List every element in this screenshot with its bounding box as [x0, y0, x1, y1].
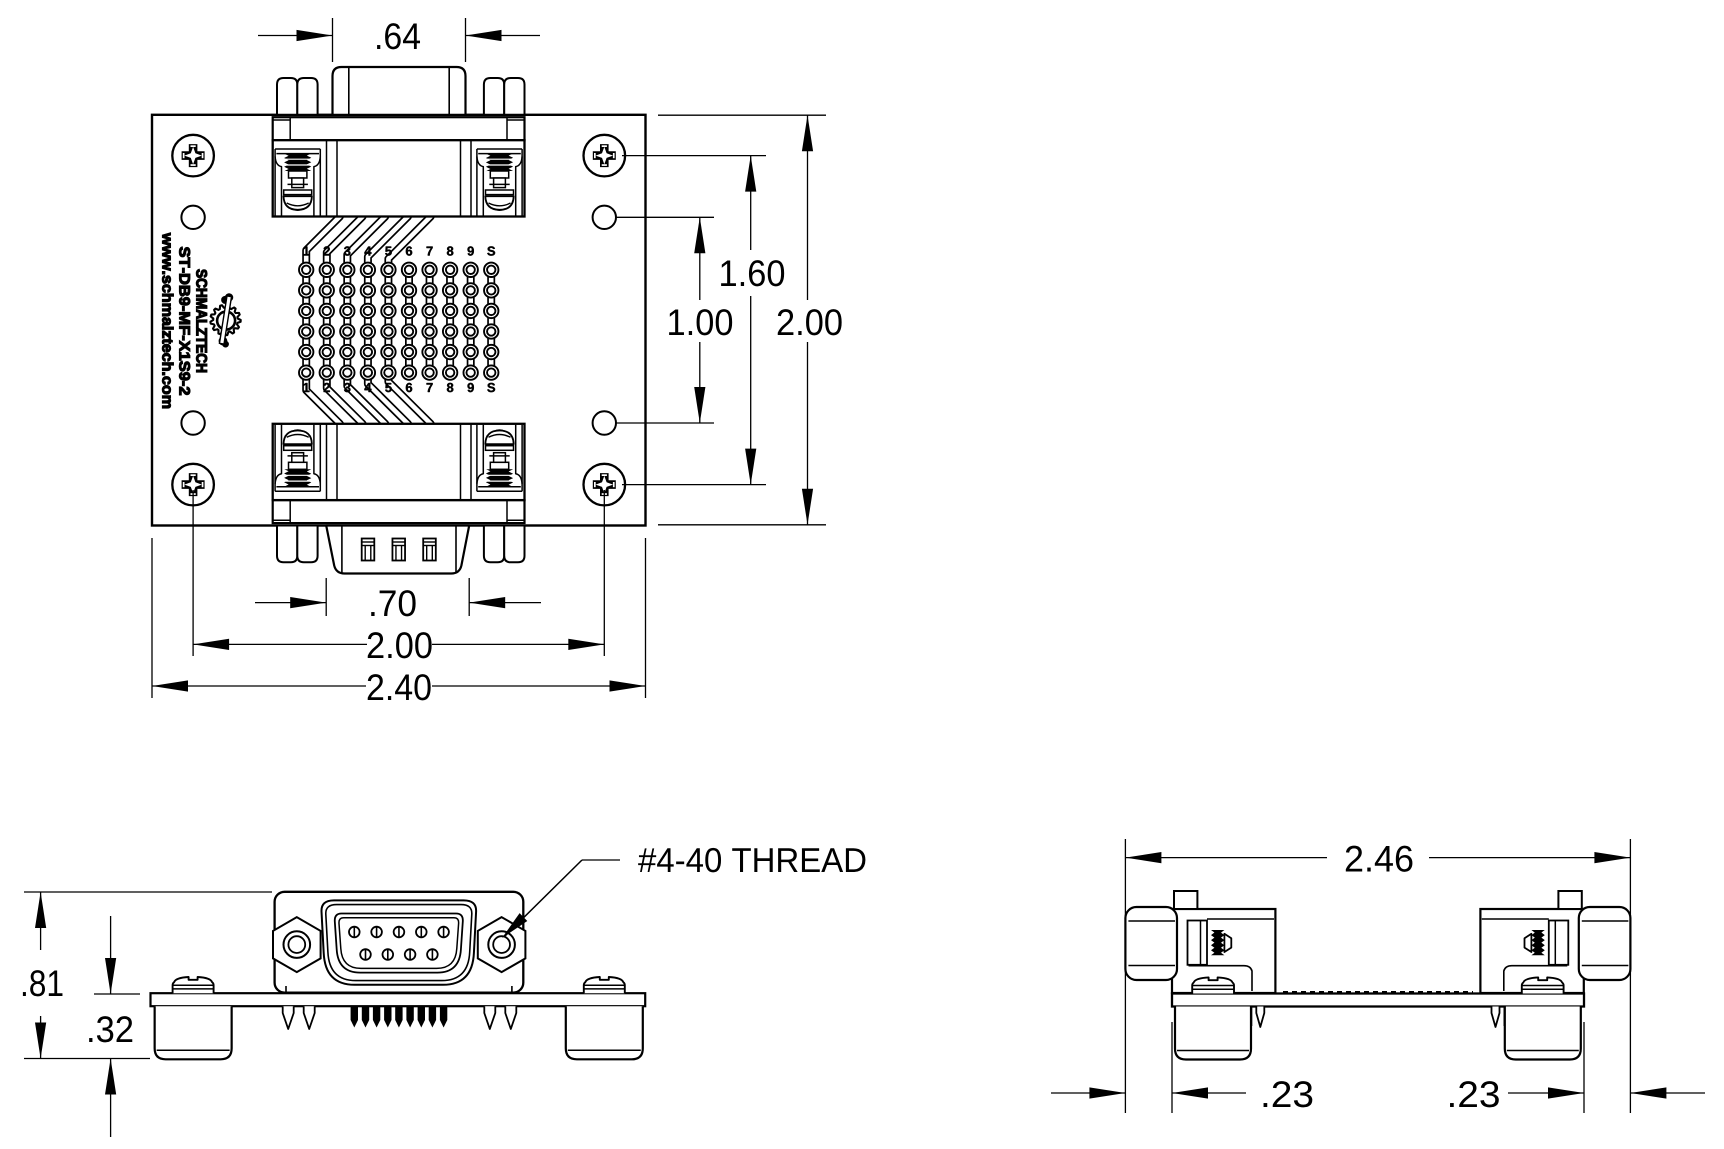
front view screw head right — [584, 977, 625, 993]
mounting screw bottom-left — [172, 464, 214, 506]
plated vias 10x6 grid — [299, 263, 313, 277]
unplated hole top-left — [181, 206, 204, 229]
dimension 2.00 (screw spacing horizontal) — [192, 490, 194, 656]
via column links — [302, 270, 310, 291]
front view jack screw nut right — [478, 917, 526, 972]
unplated hole top-right — [593, 206, 616, 229]
side view PCB edge — [1172, 994, 1584, 1007]
unplated hole bottom-left — [181, 411, 204, 434]
dimension .64 (shell width) — [332, 18, 334, 62]
via column number labels — [303, 247, 309, 256]
dimension 1.60 (screw spacing vertical) — [622, 155, 766, 157]
front view PCB edge — [151, 993, 646, 1006]
dimension .81 (overall height) — [24, 891, 272, 893]
front view insert — [335, 914, 463, 973]
PCB board outline (top view) — [152, 115, 646, 526]
mounting screw bottom-right — [584, 464, 626, 506]
front view 9 male pins — [349, 927, 360, 938]
traces pins 1-5 to via columns — [306, 210, 340, 266]
unplated hole bottom-right — [593, 411, 616, 434]
front view D-sub shell — [321, 900, 476, 984]
dimension 2.40 (board width) — [151, 538, 153, 698]
front view body ticks — [285, 986, 287, 993]
dimension .70 (male shell width) — [325, 578, 327, 616]
side view connector block left — [1172, 909, 1275, 993]
silkscreen text www.schmalztech.com — [162, 233, 173, 408]
dimension .23 right (overhang) — [1508, 1092, 1584, 1094]
mounting screw top-left — [172, 135, 214, 177]
front view connector body — [275, 892, 524, 993]
front view board lock prongs — [283, 1006, 294, 1029]
dimension 2.00 (board height) — [658, 114, 826, 116]
dimension 1.00 (hole spacing) — [616, 216, 714, 218]
side view via dashes — [1283, 991, 1473, 993]
gear logo — [210, 305, 240, 335]
mounting screw top-right — [584, 135, 626, 177]
front view jack screw nut left — [273, 917, 321, 972]
dimension 2.46 (overall length) — [1124, 839, 1126, 1113]
side view connector block right — [1480, 909, 1583, 993]
front view screw head left — [173, 977, 214, 993]
DB9 male connector J2 (bottom of board) — [326, 526, 469, 574]
front view standoff left — [155, 1006, 232, 1059]
silkscreen text SCHMALZTECH — [196, 269, 207, 372]
front view standoff right — [566, 1006, 643, 1059]
front view 9 solder tails — [351, 1006, 358, 1027]
dimension .32 (standoff height) — [94, 993, 140, 995]
DB9 female connector J1 (top of board) — [333, 67, 466, 115]
dimension .23 left (overhang) — [1171, 1022, 1173, 1113]
silkscreen text ST-DB9-MF-X1S9-2 — [179, 247, 190, 395]
leader #4-40 THREAD — [582, 859, 620, 861]
